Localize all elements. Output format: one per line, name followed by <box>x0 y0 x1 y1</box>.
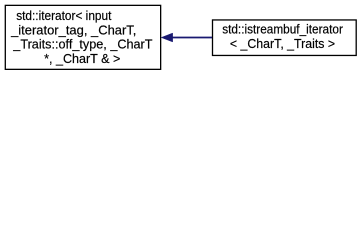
svg-text:< _CharT, _Traits >: < _CharT, _Traits > <box>230 36 335 51</box>
inheritance edge arrowhead <box>161 33 172 42</box>
svg-text:std::iterator< input: std::iterator< input <box>16 8 112 23</box>
svg-text:std::istreambuf_iterator: std::istreambuf_iterator <box>222 22 343 37</box>
inheritance edge shaft <box>172 37 212 39</box>
node box: std::iterator (base class) <box>5 5 160 69</box>
svg-text:_iterator_tag, _CharT,: _iterator_tag, _CharT, <box>10 22 136 37</box>
node box: std::istreambuf_iterator (derived class) <box>213 20 357 56</box>
svg-text:*, _CharT & >: *, _CharT & > <box>44 51 120 66</box>
svg-text:_Traits::off_type, _CharT: _Traits::off_type, _CharT <box>12 36 152 51</box>
